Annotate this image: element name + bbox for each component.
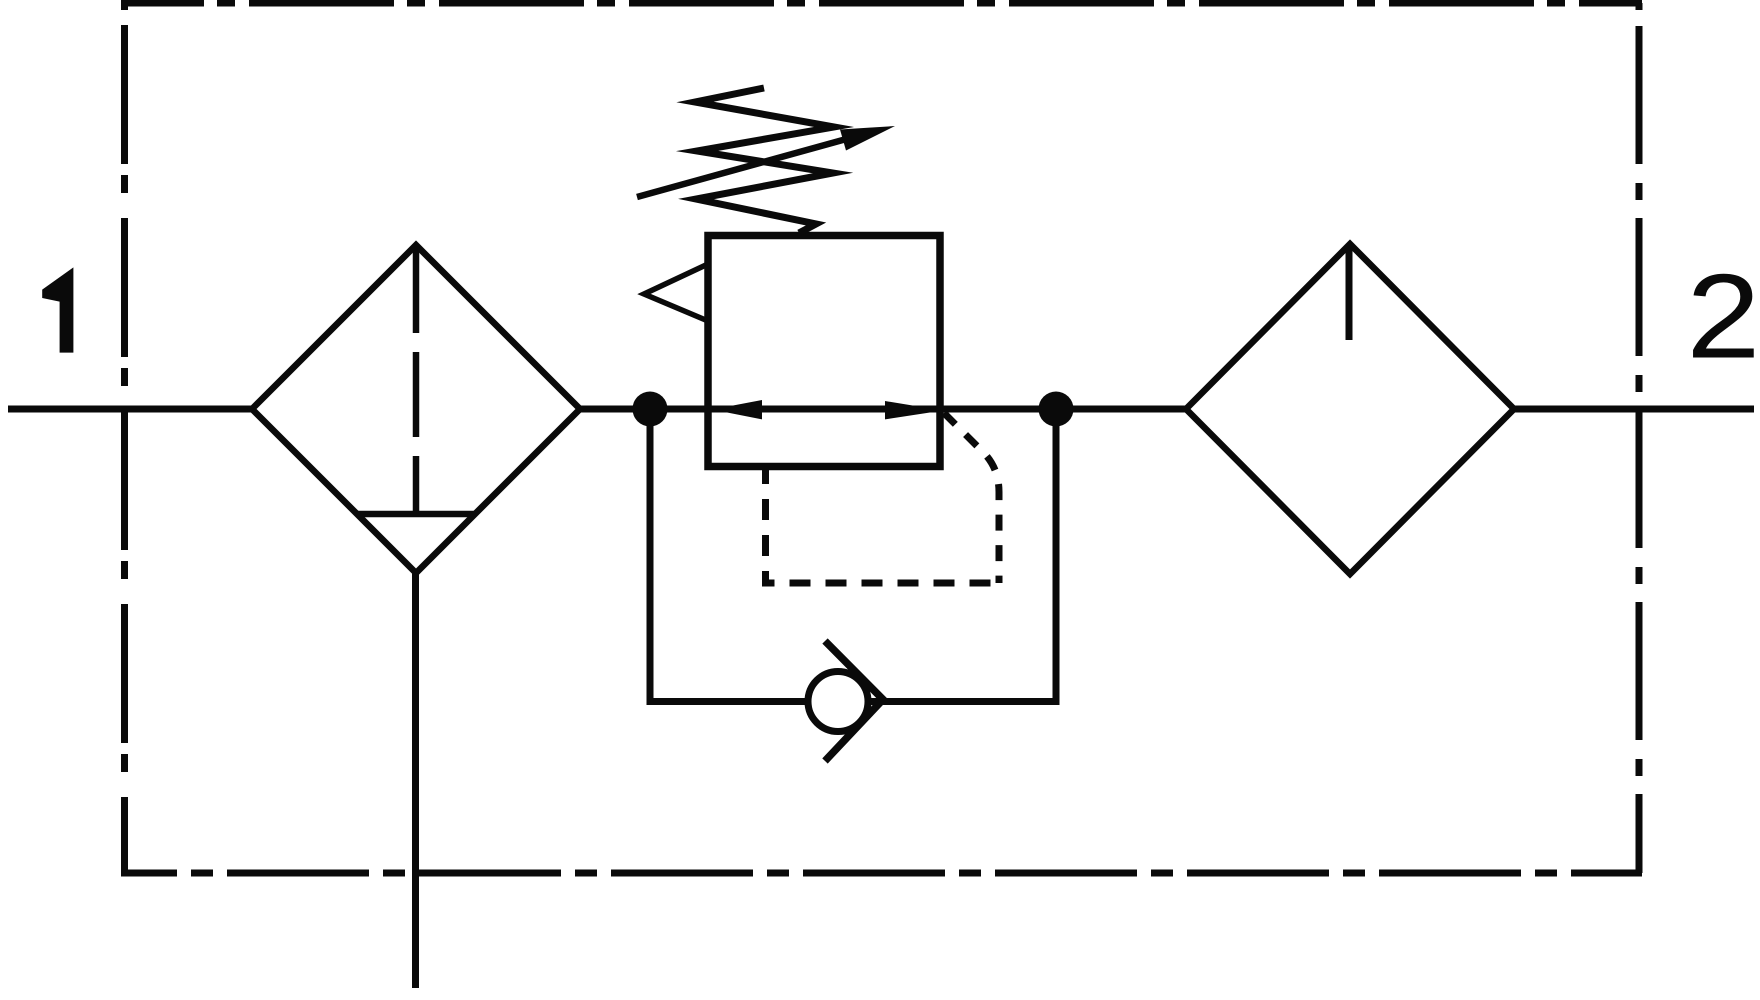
svg-text:2: 2 xyxy=(1686,249,1760,383)
